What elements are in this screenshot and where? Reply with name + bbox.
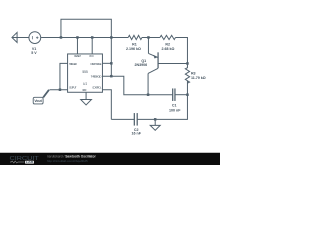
junction dots [59,36,189,120]
footer bar [0,153,220,165]
svg-text:narutokard / Sawtooth Oscillat: narutokard / Sawtooth Oscillator [47,154,97,158]
svg-text:CIRCUIT: CIRCUIT [10,156,39,162]
svg-text:TRIGGER: TRIGGER [69,62,77,66]
node: threshold [110,75,113,78]
svg-text:DISCHARGE: DISCHARGE [90,62,101,66]
node: R3/C1 [186,93,189,96]
wire gnd to V1 [12,35,29,39]
resistor R2 [160,35,176,39]
IC 555 box U1 [68,54,103,92]
wire DISCHARGE stub [102,61,111,65]
wire C1 right plate to R3 node [175,93,188,97]
wire THRESHOLD to C1 row [102,76,172,95]
svg-text:R2: R2 [165,42,170,46]
IC pin labels [69,54,102,92]
svg-text:U1: U1 [83,82,87,86]
svg-text:CONTROL: CONTROL [92,86,102,90]
wire long vertical (rail to threshold junction) [109,37,113,76]
wire bottom rail (corner to C2) [111,117,134,121]
svg-text:RESET: RESET [74,54,81,58]
svg-text:2.68 kΩ: 2.68 kΩ [161,47,174,51]
node: rail x loop-left [60,36,63,39]
svg-text:100 nF: 100 nF [169,108,181,112]
ground GND2 (bottom rail) [150,119,160,130]
node: rail x RESET [76,36,79,39]
svg-text:C2: C2 [134,128,139,132]
svg-text:C1: C1 [172,104,177,108]
svg-text:http://circuitlab.com/c/bqe9b2: http://circuitlab.com/c/bqe9b25 [47,159,88,163]
node: trigger/output [59,88,62,91]
node: discharge [110,62,113,64]
capacitor C1 [173,88,175,101]
node: base/R2/R3 [186,62,189,64]
svg-text:16 nF: 16 nF [131,132,141,136]
svg-text:R1: R1 [132,42,137,46]
capacitor C2 [134,113,137,126]
resistor R1 [128,35,142,39]
wire R2 to right corner, down to base node [175,37,187,63]
svg-text:LAB: LAB [26,161,34,164]
IC 555 / U1 designator [82,70,88,86]
wire CONTROL down to bottom rail [102,90,111,120]
wire V1 to rail [41,35,128,39]
svg-text:OUTPUT: OUTPUT [69,86,77,90]
transistor Q1 2N3906 [148,37,187,94]
svg-text:Q1: Q1 [141,59,146,63]
wire C2 to ground node [137,117,155,121]
node: collector/C1 [147,93,150,96]
svg-text:555: 555 [82,70,88,74]
svg-text:11.79 kΩ: 11.79 kΩ [191,76,206,80]
svg-text:5 V: 5 V [31,51,37,55]
svg-text:2.196 kΩ: 2.196 kΩ [126,47,141,51]
wire OUTPUT to Vout flag pole [49,88,67,92]
svg-text:GND: GND [82,88,86,92]
ground GND3 (IC GND pin) [81,92,92,105]
node: rail x emitter [147,36,150,39]
node: rail x VCC [91,36,94,39]
node: rail x long vertical [110,36,113,39]
wire R3 bottom down to bottom rail corner [155,81,187,119]
net flag Vout [33,90,49,104]
ground GND1 (left of V1, pointing left) [12,32,17,42]
wire TRIGGER to riser to OUTPUT [60,63,68,89]
labels [31,42,206,135]
wire VCC pin drop [90,37,94,54]
svg-text:THRESHOLD: THRESHOLD [91,75,102,79]
wire RESET pin drop [75,37,79,54]
svg-text:2N3906: 2N3906 [135,63,148,67]
voltage source V1 [29,32,41,44]
svg-text:VCC: VCC [89,54,94,58]
resistor R3 (vertical) [185,63,189,83]
svg-text:V1: V1 [32,47,36,51]
wire R1 to emitter node to R2 [142,35,160,39]
svg-text:Vout: Vout [34,99,42,103]
svg-text:R3: R3 [191,71,196,75]
wire top bypass loop [61,19,111,37]
node: ground2 on rail [154,118,157,121]
